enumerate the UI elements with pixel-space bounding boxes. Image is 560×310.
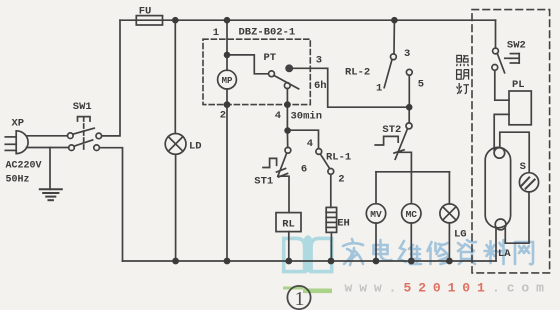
wire distribution rail bbox=[376, 171, 449, 173]
lamp LG bbox=[440, 204, 459, 223]
wire node to RL-1 contact 4 bbox=[288, 130, 319, 148]
junction bus-RL bbox=[285, 258, 292, 265]
relay contact RL-1 bbox=[316, 149, 334, 175]
thermostat ST2 bbox=[375, 123, 412, 159]
svg-text:1: 1 bbox=[213, 27, 219, 39]
wire rail to MC bbox=[410, 172, 412, 204]
ground bbox=[40, 148, 62, 201]
motor MV bbox=[366, 204, 385, 223]
switch SW2 bbox=[492, 48, 519, 73]
svg-text:520101: 520101 bbox=[404, 281, 492, 296]
svg-text:www.: www. bbox=[345, 281, 404, 296]
watermark url text bbox=[345, 281, 551, 296]
svg-text:6h: 6h bbox=[314, 80, 327, 92]
wire top rail right of fuse bbox=[163, 19, 496, 21]
fluorescent tube LA bbox=[485, 147, 510, 229]
relay contact RL-2 bbox=[384, 54, 412, 88]
svg-text:LG: LG bbox=[454, 229, 467, 241]
thermostat ST1 bbox=[263, 147, 291, 177]
heater EH bbox=[326, 207, 336, 232]
wire MC to bus bbox=[410, 223, 412, 261]
watermark book logo bbox=[284, 237, 332, 272]
contact 4 30min junction bbox=[284, 101, 291, 108]
wire bottom bus bbox=[123, 260, 497, 262]
svg-text:1: 1 bbox=[376, 83, 382, 95]
wire PL to tube top electrode bbox=[494, 114, 509, 150]
svg-text:30min: 30min bbox=[291, 111, 323, 123]
wire 30min contact 4 down bbox=[286, 88, 288, 130]
svg-text:1: 1 bbox=[295, 288, 305, 310]
junction rail-RL2 bbox=[391, 17, 398, 24]
fuse FU bbox=[136, 16, 162, 25]
svg-text:LA: LA bbox=[498, 248, 511, 260]
junction 6h wire / contact 5 bbox=[406, 104, 413, 111]
junction bus-node2 bbox=[224, 258, 231, 265]
node 2 junction bbox=[224, 101, 231, 108]
wire node 2 column to bus bbox=[226, 89, 228, 261]
lamp LD bbox=[165, 134, 186, 155]
svg-text:4: 4 bbox=[307, 138, 313, 150]
junction rail-LD bbox=[172, 17, 179, 24]
svg-text:SW1: SW1 bbox=[73, 101, 92, 113]
lighting compartment dashed box bbox=[472, 10, 550, 273]
wire rail to LG bbox=[448, 172, 450, 204]
ballast PL bbox=[509, 91, 531, 125]
junction bus-LD bbox=[172, 258, 179, 265]
svg-text:ST2: ST2 bbox=[382, 124, 401, 136]
wire 6h path from contact 3 bbox=[289, 68, 409, 107]
wire rail down to SW2 bbox=[495, 20, 497, 48]
wire EH to bus bbox=[330, 232, 332, 261]
svg-text:RL-1: RL-1 bbox=[326, 152, 351, 164]
svg-text:AC220V: AC220V bbox=[6, 161, 42, 172]
svg-text:S: S bbox=[520, 161, 526, 173]
watermark circled figure number 1 bbox=[287, 286, 310, 310]
svg-text:MP: MP bbox=[222, 76, 233, 86]
wire RL-2 contact 5 down bbox=[408, 75, 410, 107]
junction ST1/RL-1 branch bbox=[284, 127, 291, 134]
wire LG to bus bbox=[448, 223, 450, 261]
svg-text:FU: FU bbox=[139, 5, 152, 17]
svg-text:6: 6 bbox=[301, 164, 307, 176]
wire bus end up to tube bbox=[495, 229, 497, 261]
svg-text:EH: EH bbox=[337, 218, 350, 230]
wire tube top to starter bbox=[500, 132, 529, 173]
wire top rail left of fuse bbox=[120, 19, 136, 21]
svg-text:3: 3 bbox=[404, 48, 410, 60]
wire LD to bus bbox=[175, 154, 177, 261]
svg-text:RL-2: RL-2 bbox=[345, 66, 370, 78]
junction bus-LG bbox=[446, 258, 453, 265]
junction bus-EH bbox=[328, 258, 335, 265]
switch SW1 (double pole) bbox=[68, 117, 102, 151]
starter S bbox=[519, 173, 538, 192]
wire SW1 bottom pole down to bottom bus bbox=[99, 148, 122, 261]
svg-text:MV: MV bbox=[370, 209, 382, 220]
wire node to ST2 bbox=[408, 107, 410, 123]
timer switch PT bbox=[269, 71, 299, 89]
relay coil RL bbox=[276, 213, 301, 232]
wire plug to SW1 bottom pole bbox=[27, 147, 69, 149]
svg-text:LD: LD bbox=[189, 140, 202, 152]
PT contact 3 dot bbox=[286, 65, 292, 71]
wire rail to node 1 bbox=[226, 20, 228, 70]
motor MC bbox=[402, 204, 421, 223]
svg-text:SW2: SW2 bbox=[507, 40, 526, 52]
svg-text:MC: MC bbox=[406, 209, 418, 220]
svg-text:DBZ-B02-1: DBZ-B02-1 bbox=[239, 27, 296, 39]
wire rail to RL-2 contact 3 bbox=[393, 20, 395, 54]
svg-text:4: 4 bbox=[275, 110, 281, 122]
svg-text:3: 3 bbox=[316, 54, 322, 66]
watermark green underline bbox=[283, 288, 332, 291]
wire node 1 to timer switch PT bbox=[227, 55, 269, 74]
wire ST2 to distribution rail bbox=[398, 152, 411, 172]
wire starter to tube bottom electrode bbox=[505, 192, 529, 243]
label lighting lamp (zhao ming deng) vertical bbox=[457, 55, 469, 93]
wire RL to bus bbox=[288, 232, 290, 261]
svg-text:50Hz: 50Hz bbox=[6, 175, 30, 186]
wire rail to MV bbox=[375, 172, 377, 204]
junction bus-MC bbox=[408, 258, 415, 265]
junction rail-node1 bbox=[224, 17, 231, 24]
svg-text:2: 2 bbox=[338, 174, 344, 186]
svg-text:RL: RL bbox=[282, 218, 295, 230]
wire SW1 top pole up to fuse bbox=[102, 20, 120, 136]
wire RL-1 contact 2 to EH bbox=[330, 174, 332, 207]
timer unit box DBZ-B02-1 bbox=[203, 39, 310, 104]
svg-text:PT: PT bbox=[264, 52, 277, 64]
svg-text:ST1: ST1 bbox=[254, 176, 273, 188]
svg-text:5: 5 bbox=[418, 79, 424, 91]
junction bus-MV bbox=[373, 258, 380, 265]
node 1 junction bbox=[224, 52, 231, 59]
plug XP bbox=[5, 131, 28, 154]
svg-text:XP: XP bbox=[12, 118, 25, 130]
wire node to ST1 bbox=[286, 131, 288, 148]
wire ST1 to RL coil bbox=[278, 176, 289, 212]
wire SW2 to PL bbox=[495, 70, 509, 100]
svg-text:PL: PL bbox=[512, 79, 525, 91]
wire plug to SW1 top pole bbox=[27, 135, 68, 137]
wire LD drop from rail bbox=[174, 20, 176, 133]
svg-text:.com: .com bbox=[492, 281, 551, 296]
wire MV to bus bbox=[375, 223, 377, 261]
timer motor MP bbox=[218, 70, 237, 89]
svg-text:2: 2 bbox=[220, 109, 226, 121]
watermark blue brush characters bbox=[343, 239, 533, 265]
